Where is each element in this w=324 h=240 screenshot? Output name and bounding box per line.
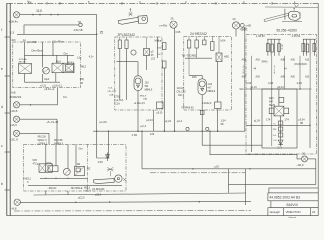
label 3C555A	[19, 58, 27, 64]
frame bottom border line	[7, 215, 318, 217]
svg-text:µC2,5: µC2,5	[78, 196, 85, 199]
wire W5 from C3	[20, 118, 57, 120]
svg-text:b: b	[1, 182, 3, 186]
svg-text:f: f	[1, 28, 2, 32]
svg-text:1C5: 1C5	[151, 59, 156, 61]
wire relay bottom lead	[55, 73, 57, 83]
svg-text:MB4L9: MB4L9	[145, 89, 153, 92]
net text M9.C38 group	[54, 139, 64, 146]
svg-text:|FC|FC9|C6: |FC|FC9|C6	[295, 64, 308, 66]
svg-text:45: 45	[78, 20, 81, 24]
label 9+ chain	[273, 124, 278, 143]
svg-text:+2C,A: +2C,A	[84, 190, 91, 193]
svg-text:MB4L9: MB4L9	[208, 90, 216, 93]
svg-text:Grn: Grn	[79, 148, 84, 151]
wire V4 down to block5	[48, 133, 50, 144]
terminal +3C.0 (C4)	[13, 130, 19, 136]
svg-text:9Z: 9Z	[80, 82, 83, 85]
svg-text:2+9: 2+9	[273, 140, 277, 142]
terminal +45V (C6)	[170, 21, 177, 28]
svg-text:x: x	[243, 70, 245, 72]
wire long rail y168.8	[142, 168, 316, 170]
label 9RxL9 19A	[140, 95, 148, 100]
junction dots on W8	[251, 88, 301, 90]
label 100 5W MB4LB	[145, 82, 153, 92]
svg-text:A00: A00	[291, 59, 296, 62]
label 9+9A+2.9S group	[177, 87, 187, 97]
inner box block4	[262, 89, 297, 148]
wire block1 vertical c	[52, 42, 54, 55]
frame left double border line	[7, 3, 10, 216]
frame top notch mark	[29, 2, 32, 3]
svg-text:3: 3	[274, 67, 276, 69]
svg-text:A00: A00	[291, 76, 296, 79]
svg-text:2PL302342: 2PL302342	[118, 33, 135, 37]
svg-text:µ1,24: µ1,24	[251, 86, 258, 89]
resistor R36 left of block3	[163, 61, 166, 68]
svg-text:–1R,9: –1R,9	[296, 163, 304, 167]
transistor Q21	[131, 50, 136, 55]
svg-text:A: A	[281, 47, 283, 50]
junction on V1 at W3	[96, 34, 98, 36]
svg-text:91A: 91A	[240, 88, 245, 91]
frame top border dash-dot line	[7, 2, 318, 4]
svg-text:1,35,50: 1,35,50	[256, 34, 265, 38]
svg-text:D2C: D2C	[192, 76, 197, 79]
wire W4 from C2	[20, 104, 58, 106]
wire W8 rail block4	[246, 88, 312, 90]
frame top inner cut line right	[265, 4, 318, 7]
title block row1 box	[268, 193, 318, 201]
wire link to C8	[308, 158, 316, 160]
label u9.54 9B	[299, 119, 306, 125]
wire L-drop x210 to C8	[210, 131, 301, 159]
svg-text:C35: C35	[176, 30, 181, 34]
svg-text:9A7: 9A7	[269, 101, 274, 104]
wire block5 vertical a	[45, 145, 47, 164]
svg-text:B16Vt II: B16Vt II	[287, 203, 299, 207]
wire block2 valve lead down	[146, 56, 148, 71]
svg-text:µ9,19: µ9,19	[157, 113, 164, 115]
junction dots C5 rail	[75, 201, 200, 203]
junction dots block5 rail	[45, 178, 69, 179]
frame zone letters left edge	[1, 28, 3, 186]
svg-text:110: 110	[36, 9, 42, 13]
wire drop x142 bus to long rail	[141, 131, 143, 169]
contact box right of T2	[284, 108, 289, 114]
svg-text:9t: 9t	[281, 45, 283, 48]
svg-text:+2·9A+3,9: +2·9A+3,9	[134, 102, 146, 105]
wire block5 component rail	[40, 177, 88, 179]
wire block2 valve top lead	[137, 62, 139, 76]
wire block1 relay lead b	[67, 55, 69, 64]
resistor R35 left of block3	[163, 43, 166, 50]
wire U-link below bus	[97, 131, 109, 158]
switch box S1 block5	[75, 166, 85, 175]
svg-text:µ2,4: µ2,4	[177, 119, 183, 123]
svg-text:C9L,C52: C9L,C52	[107, 91, 116, 93]
svg-text:+18,4v: +18,4v	[9, 20, 19, 24]
diode chain block4	[278, 116, 283, 146]
wire block3 right vertical	[217, 62, 219, 103]
svg-text:d: d	[1, 105, 3, 109]
svg-text:9·9A42,9: 9·9A42,9	[202, 102, 212, 105]
transformer T2 crossed box block4	[274, 106, 284, 116]
mechanical lever detail M2	[264, 8, 302, 22]
wire drop x245.7	[245, 169, 247, 205]
svg-text:AC–4Dv+: AC–4Dv+	[52, 40, 64, 44]
svg-text:24·9R2242: 24·9R2242	[190, 32, 207, 36]
wire block5 vertical d	[75, 145, 77, 167]
wire drop x138 from block2 valve	[137, 91, 139, 132]
wire drop x174.6 from C6	[174, 28, 176, 131]
wire rail y184.4	[229, 183, 316, 185]
wire block3 mid rail	[185, 57, 212, 59]
svg-text:M+A: M+A	[157, 40, 162, 43]
terminal (C3)	[13, 116, 19, 122]
svg-text:3: 3	[243, 67, 245, 69]
label MGL1 X	[25, 178, 32, 185]
svg-text:«16,9: «16,9	[10, 123, 17, 127]
svg-text:C9L,C52: C9L,C52	[177, 92, 187, 94]
wire stub block5 bottom b	[67, 191, 69, 195]
terminal -8.8 (C5)	[14, 199, 20, 205]
svg-text:26: 26	[171, 17, 174, 21]
junction dots on long rail	[192, 168, 251, 170]
wire pill top vertical	[201, 75, 203, 78]
svg-text:174: 174	[285, 118, 290, 122]
svg-text:9B: 9B	[300, 122, 303, 125]
wire block2 vertical R21 down	[119, 49, 121, 101]
net text 9R.C38 group	[38, 135, 48, 145]
wire block5 lower rail	[28, 184, 122, 186]
svg-text:9+9: 9+9	[273, 135, 277, 137]
wire block4 chain top lead	[278, 89, 280, 106]
svg-text:«+45v: «+45v	[159, 24, 168, 28]
svg-text:+16,8: +16,8	[10, 109, 18, 113]
lever arm mechanical detail block5	[94, 167, 127, 183]
svg-text:4,04: 4,04	[297, 81, 303, 85]
svg-text:+13,5: +13,5	[240, 27, 247, 31]
wire W3 horizontal	[17, 33, 97, 35]
svg-text:µ2,4: µ2,4	[141, 124, 147, 128]
svg-text:56.256–43200: 56.256–43200	[277, 28, 298, 32]
wire riser x315.8	[315, 159, 317, 185]
svg-text:47Cµ: 47Cµ	[33, 162, 39, 165]
svg-text:C2A: C2A	[115, 102, 120, 105]
svg-text:e: e	[1, 67, 3, 71]
resistor R22	[125, 40, 128, 49]
module box 2PL302342 (block2) dash-dot outline	[115, 37, 162, 110]
svg-text:SPA3: SPA3	[262, 61, 269, 64]
wire drop x153.7 from block2	[153, 110, 155, 131]
main bus wire W_big	[93, 130, 245, 132]
svg-text:µ1,24: µ1,24	[146, 118, 153, 122]
svg-text:c: c	[1, 144, 3, 148]
svg-text:µ(,24: µ(,24	[254, 118, 261, 122]
fuse F2 on bus	[206, 127, 209, 131]
svg-text:C3·9RC261: C3·9RC261	[92, 188, 105, 191]
svg-text:25: 25	[100, 31, 104, 35]
frame zone tick marks top edge	[47, 2, 272, 5]
connector box below block3	[200, 111, 204, 115]
svg-text:µ(,24: µ(,24	[165, 119, 172, 123]
wire block3 top leads	[189, 37, 219, 54]
svg-text:50: 50	[23, 38, 27, 42]
junction dots block1 rail	[42, 55, 54, 56]
wire block2 rail to valve	[131, 61, 138, 63]
svg-text:A03: A03	[256, 76, 261, 79]
terminal +18.4V (C1)	[13, 12, 19, 18]
terminal +16.8 (C2)	[13, 102, 19, 108]
wire drop x164.4	[163, 68, 165, 131]
wire rail from C5	[20, 201, 251, 202]
wire block2 right vertical	[157, 37, 159, 58]
svg-text:1CC2A,: 1CC2A,	[177, 87, 185, 90]
label C71B group	[114, 96, 123, 105]
svg-text:8: 8	[243, 73, 245, 75]
svg-text:8: 8	[274, 73, 276, 75]
resistor R32	[195, 40, 198, 48]
svg-text:µ4,052: µ4,052	[28, 40, 37, 44]
svg-text:3: 3	[185, 0, 187, 4]
svg-text:+3C,9: +3C,9	[10, 137, 19, 141]
label 1.54 98	[221, 119, 227, 126]
wire block5 vertical b	[55, 145, 57, 166]
svg-text:4,3>: 4,3>	[89, 55, 94, 58]
wire drop x217.6 from block3 bottom box	[217, 109, 219, 132]
transistor Q1 block1	[42, 67, 49, 74]
svg-text:MZ: MZ	[87, 167, 91, 170]
label u5 65	[151, 52, 156, 61]
wire W9 rail block4	[246, 124, 310, 126]
module box PRC261 (block5) dash-dot outline	[24, 145, 127, 192]
wire block1 top rail	[25, 54, 75, 56]
wire drop x228.5 long rail down	[228, 169, 230, 193]
svg-text:1,59: 1,59	[132, 133, 138, 137]
wire block1 vertical a lower	[24, 74, 26, 83]
svg-text:2C: 2C	[233, 17, 236, 21]
label MZL3	[84, 186, 91, 192]
connector box block2 bottom	[157, 102, 164, 109]
relay K2 block5 crossed box	[39, 164, 58, 173]
svg-text:3C555A: 3C555A	[19, 58, 27, 61]
svg-text:M29: M29	[269, 98, 274, 100]
frame zone numbers top edge	[27, 0, 296, 4]
junction dots on main bus	[96, 130, 219, 132]
svg-text:9R: 9R	[77, 163, 80, 166]
label M29 9A7 PMZ9	[269, 98, 276, 107]
frame zone tick marks left edge	[5, 37, 11, 190]
svg-text:19C,2: 19C,2	[178, 95, 185, 97]
crossed box X31	[216, 53, 222, 62]
title block row2 box	[271, 201, 318, 208]
module box 56.256-43200 (block4) dash-dot outline	[246, 35, 317, 155]
svg-text:A53: A53	[256, 59, 261, 62]
connector box block3 bottom	[215, 102, 222, 109]
wire block2 mid rail	[117, 61, 132, 63]
wire vertical x244.8 top to bus	[244, 27, 246, 131]
resistor R31	[187, 40, 190, 48]
svg-text:C+2–C2): C+2–C2)	[114, 100, 123, 102]
title block row3 box	[268, 208, 318, 216]
label 1G0 4x7 MB4L9	[208, 83, 216, 93]
svg-text:44.0852.2002 A4 B3: 44.0852.2002 A4 B3	[269, 196, 300, 200]
svg-text:4,04: 4,04	[246, 81, 252, 85]
test point circle 45	[79, 23, 82, 26]
svg-text:Den·Bus: Den·Bus	[32, 49, 43, 53]
wire block3 pill top lead	[189, 74, 202, 76]
svg-text:Jansagh: Jansagh	[269, 210, 280, 214]
svg-text:JEY,9PALE: JEY,9PALE	[71, 187, 83, 190]
svg-text:9C: 9C	[158, 54, 161, 56]
svg-text:H3E: H3E	[224, 56, 229, 59]
resistor header group L	[267, 39, 281, 56]
svg-text:1B2: 1B2	[157, 48, 162, 50]
svg-text:X: X	[27, 181, 29, 184]
svg-text:A5B: A5B	[242, 59, 247, 62]
contact box left of T2	[269, 108, 274, 114]
svg-text:µ0,6+2,1: µ0,6+2,1	[53, 85, 63, 88]
svg-text:A23: A23	[305, 59, 310, 62]
wire W6 from C4	[20, 132, 49, 134]
svg-text:A58: A58	[242, 76, 247, 79]
svg-text:MGL1: MGL1	[25, 178, 32, 181]
svg-text:4C9: 4C9	[11, 40, 16, 42]
svg-text:–MG,9C: –MG,9C	[48, 187, 57, 190]
wire block5 vertical c	[67, 145, 69, 169]
svg-text:2,72: 2,72	[277, 146, 282, 149]
svg-text:24: 24	[312, 210, 316, 214]
wire block4 legs lower	[251, 56, 310, 146]
wire L-drop x202.2 to block4	[202, 110, 262, 145]
svg-text:9Z6: 9Z6	[273, 129, 277, 131]
junction dots on W9	[251, 125, 311, 127]
resistor R21	[118, 40, 121, 49]
label 3x8 vertical	[243, 67, 276, 75]
terminal -1R.9 (C8)	[302, 156, 308, 162]
svg-text:9+9,: 9+9,	[108, 88, 113, 90]
junction dots on W1	[32, 14, 59, 16]
label 44 pair	[254, 68, 288, 71]
svg-text:9(BRA,5: 9(BRA,5	[54, 143, 64, 146]
wire block1 bottom rail	[25, 81, 61, 83]
crossed box X21	[144, 49, 150, 56]
wire valve bottom lead	[201, 95, 203, 111]
svg-text:4,24: 4,24	[268, 81, 274, 85]
svg-text:µ9,3A,+2: µ9,3A,+2	[45, 88, 55, 91]
chassis dash-dot segment mid	[150, 172, 245, 174]
wire rail y192.6	[34, 193, 246, 195]
svg-text:M1A: M1A	[47, 162, 52, 165]
terminal +13.5V (C7)	[232, 22, 239, 29]
resistor header group R	[302, 39, 316, 56]
svg-text:fsfmurok: fsfmurok	[289, 216, 296, 219]
svg-text:4,52,1B: 4,52,1B	[74, 28, 83, 32]
svg-text:+0,21: +0,21	[40, 85, 47, 88]
svg-text:VIDEOTON: VIDEOTON	[286, 210, 301, 214]
svg-text:44: 44	[254, 68, 257, 71]
chassis dash-dot line bottom	[14, 210, 251, 212]
svg-text:10µF: 10µF	[44, 78, 50, 81]
svg-text:1,3<: 1,3<	[77, 56, 82, 59]
svg-text:9RxL9: 9RxL9	[140, 95, 147, 97]
relay K1 block1 crossed box	[52, 63, 74, 72]
svg-text:µ1,04: µ1,04	[100, 120, 107, 124]
transformer T1 block1	[19, 64, 32, 74]
svg-text:µ3,24: µ3,24	[277, 85, 284, 89]
svg-text:1,59: 1,59	[98, 160, 104, 164]
frame right border line	[317, 3, 319, 215]
label 9C5 47C	[33, 159, 39, 165]
label row A5B	[242, 59, 310, 62]
module box 24 BR2242 (block3) dash-dot outline	[184, 37, 232, 111]
junction dot on W4	[30, 104, 32, 106]
wire block4 drop right	[309, 89, 311, 148]
svg-text:65: 65	[151, 55, 154, 57]
svg-text:9B,Z: 9B,Z	[81, 65, 87, 68]
wire stub block5 bottom a	[45, 191, 47, 195]
wire W2 with corner	[24, 25, 79, 34]
valve V31 pill with transistor circle	[198, 79, 206, 95]
svg-text:2,3: 2,3	[10, 30, 15, 34]
wire block1 relay lead a	[56, 55, 58, 63]
wire block4 drop left	[250, 89, 252, 152]
fuse F1 on bus	[186, 127, 189, 131]
wire stub below C7	[235, 29, 237, 37]
wire V2 block1 to W4	[57, 88, 59, 105]
svg-text:µ29: µ29	[215, 166, 220, 169]
svg-text:129: 129	[150, 133, 155, 136]
svg-text:M1A: M1A	[56, 60, 61, 63]
wire block2 top leads	[120, 37, 147, 49]
zener diode D1 block5	[106, 153, 110, 162]
valve V21 pill with circle	[134, 76, 142, 91]
svg-text:C2A: C2A	[109, 93, 114, 96]
svg-text:A23: A23	[305, 76, 310, 79]
svg-text:19A: 19A	[143, 98, 147, 101]
wire W1 top horizontal from C1	[20, 14, 97, 16]
terminal 0-89	[240, 23, 244, 27]
wire V3 down to block5	[56, 119, 58, 144]
svg-text:ACA1: ACA1	[68, 62, 75, 65]
svg-text:1,54: 1,54	[221, 119, 227, 123]
wire block1 vertical b lower	[42, 74, 44, 82]
wire block3 left leads down	[189, 48, 197, 75]
wire block1 vertical a upper	[24, 42, 26, 64]
svg-text:M1A: M1A	[221, 40, 226, 43]
svg-text:C?1B: C?1B	[114, 96, 120, 98]
title block top strip	[269, 188, 318, 193]
module box 4.052 (block1) dash-dot outline	[13, 42, 81, 88]
wire block1 vertical b upper	[42, 42, 44, 67]
label M+A column	[157, 40, 162, 56]
svg-text:1,35,50: 1,35,50	[292, 34, 301, 38]
svg-text:–8,8: –8,8	[11, 206, 17, 210]
svg-text:µ5: µ5	[151, 52, 154, 54]
transistor Q2 block5	[63, 168, 70, 175]
svg-text:x: x	[274, 70, 276, 72]
label 9+9 stack left of block2	[107, 88, 116, 97]
svg-text:174: 174	[266, 118, 271, 122]
connector box on chain lead	[279, 97, 284, 102]
wire block2 vertical R22 down	[126, 49, 128, 101]
svg-text:3002243: 3002243	[10, 95, 22, 99]
svg-text:µ2PRA,3: µ2PRA,3	[38, 142, 48, 145]
wire V1 vertical bus x=96.7	[96, 15, 98, 132]
svg-text:C4: C4	[63, 95, 67, 99]
contact box B31	[211, 42, 214, 51]
